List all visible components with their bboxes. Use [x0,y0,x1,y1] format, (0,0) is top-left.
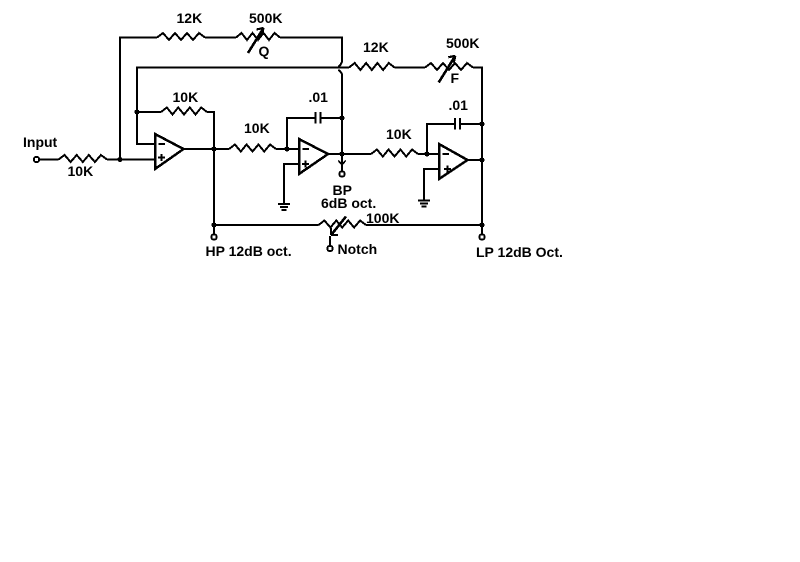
wire: input resistor to op1 non-inverting input [107,159,156,161]
potentiometer 100K notch element zigzag [319,221,367,228]
potentiometer 500K Q element zigzag [236,33,280,40]
svg-text:6dB oct.: 6dB oct. [321,195,376,211]
svg-text:Notch: Notch [338,241,378,257]
node: HP output (op1 output) [211,146,216,151]
wire: op3 integrator cap left vertical riser [426,123,428,155]
svg-text:F: F [451,70,460,86]
resistor 10K (op2 to op3) zigzag [371,150,418,157]
wire: op1 inverting input horizontal [136,143,156,145]
wire: BP output stub below op2 output node [341,155,343,171]
wire: Q-loop top horizontal right span [280,37,343,39]
svg-text:500K: 500K [249,10,282,26]
wire: input terminal to input resistor [39,159,59,161]
resistor 12K (Q loop) zigzag [157,33,205,40]
wire: op2 cap left horizontal [286,117,315,119]
ground symbol at op2 non-inverting input [278,204,290,210]
wire: Q-loop top horizontal left span [119,37,157,39]
op-amp U2 minus sign [303,148,310,150]
op-amp U3 plus sign [444,166,451,173]
wire: vertical x=214 from feedback corner through op1 output node down to HP terminal [213,111,215,234]
wire: op1 feedback left stub [136,111,161,113]
capacitor C2 .01 plates (op3 integrator) [454,118,456,130]
svg-text:12K: 12K [363,39,389,55]
potentiometer 500K F element zigzag [425,63,473,70]
wire: op2 integrator cap left vertical riser [286,117,288,150]
wire: op2 non-inverting input horizontal [284,163,300,165]
svg-text:10K: 10K [68,163,94,179]
wire: op3 non-inverting input horizontal [424,168,440,170]
wire: F-loop horizontal right span [473,67,483,69]
svg-text:.01: .01 [309,89,329,105]
ground symbol at op3 non-inverting input [418,201,430,207]
op-amp U2 plus sign [302,161,309,168]
svg-text:100K: 100K [366,210,399,226]
wire crossover hop lower flick at (340,71) [338,70,342,75]
wire crossover hop upper flick at (342,64) [338,62,342,67]
wire: notch wiper stub to terminal [329,236,331,246]
node: input summing junction at op1 + [117,157,122,162]
wire: vertical from op1 inverting node down (x=137) [136,67,138,146]
wire: bottom rail right span (notch pot to LP node) [366,224,482,226]
capacitor C1 .01 plates (op2 integrator) [315,112,317,124]
node: op1 inverting / feedback tap [134,109,139,114]
node: LP rail corner [479,222,484,227]
wire: bottom rail left span (HP node to notch pot) [214,224,319,226]
op-amp U2 (first integrator) triangle [299,139,328,174]
op-amp U1 (summing amp) triangle [155,134,184,169]
op-amp U1 minus sign [159,143,166,145]
svg-text:HP 12dB oct.: HP 12dB oct. [206,243,292,259]
wire: F-loop horizontal left span [137,67,349,69]
wire: op3 non-inverting down to ground [423,168,425,201]
potentiometer F wiper arrow [439,56,456,83]
terminal: Input [34,157,39,162]
BP output arrowhead ticks [338,161,341,165]
wire: 10K resistor to op2 inverting input [276,148,300,150]
svg-text:LP 12dB Oct.: LP 12dB Oct. [476,244,563,260]
node: op3 inverting input [424,151,429,156]
svg-text:12K: 12K [177,10,203,26]
node: op2 cap to BP column [339,115,344,120]
terminal: HP output [211,234,216,239]
node: op3 cap to LP column [479,121,484,126]
svg-text:500K: 500K [446,35,479,51]
wire: op1 feedback right stub [207,111,215,113]
potentiometer Notch wiper arrow [331,217,346,236]
wire: vertical BP feedback x=342 upper part (above crossover hop) [341,37,343,63]
svg-text:10K: 10K [173,89,199,105]
resistor R-in 10K zigzag [59,155,108,162]
wire: op2 output to 10K resistor [328,153,371,155]
svg-text:.01: .01 [449,97,469,113]
wire: op3 cap left horizontal [426,123,454,125]
node: op2 inverting input [284,146,289,151]
wire: vertical BP feedback x=342 lower part down to op2 output node [341,74,343,156]
svg-text:Q: Q [259,43,270,59]
resistor 10K (op1 to op2) zigzag [229,145,276,152]
op-amp U3 minus sign [443,153,450,155]
op-amp U1 plus sign [158,154,165,161]
wire: op2 non-inverting down to ground [283,163,285,204]
wire: Q-loop top horizontal mid span [205,37,236,39]
terminal: BP output [339,171,344,176]
node: LP output (op3 output) [479,157,484,162]
wire: 10K resistor to op3 inverting input [418,153,440,155]
wire: left vertical from Q-loop down to op1 non-inverting input [119,37,121,161]
wire: op2 cap right horizontal to BP node column [322,117,343,119]
svg-text:10K: 10K [386,126,412,142]
wire: F-loop horizontal mid span [395,67,426,69]
resistor 10K (op1 feedback) zigzag [161,108,207,115]
wire: op3 cap right horizontal to LP column [461,123,482,125]
node: HP rail corner [211,222,216,227]
svg-text:Input: Input [23,134,58,150]
potentiometer Q wiper arrow [248,28,264,53]
terminal: LP output [479,234,484,239]
resistor 12K (F loop) zigzag [349,63,395,70]
svg-text:10K: 10K [244,120,270,136]
wire: op1 output to 10K resistor [183,148,229,150]
terminal: Notch output [327,246,332,251]
wire: op3 output stub [467,159,483,161]
op-amp U3 (second integrator) triangle [439,144,468,179]
wire: LP column vertical x=482 [481,67,483,235]
node: BP output (op2 output) [339,151,344,156]
